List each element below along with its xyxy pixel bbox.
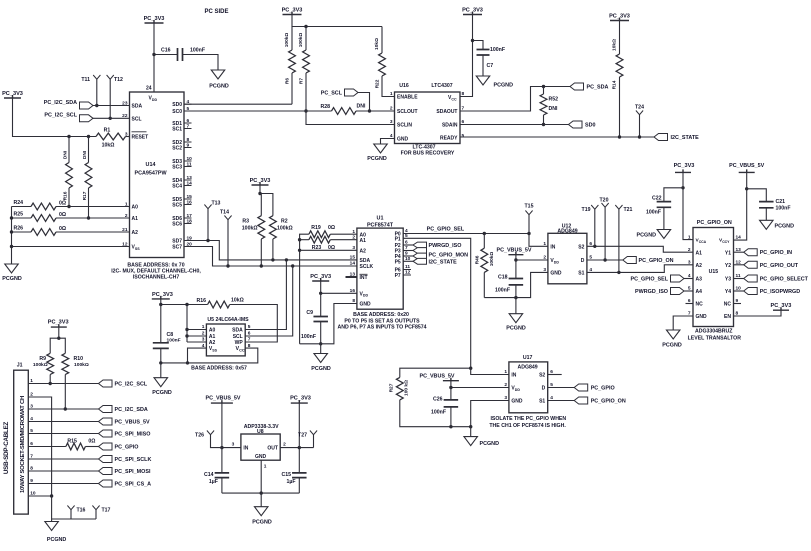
wire J1 pin1 — [28, 383, 98, 385]
svg-text:R52: R52 — [549, 97, 559, 103]
svg-text:2: 2 — [504, 382, 507, 388]
tag I2C_STATE — [654, 134, 699, 142]
svg-text:R28: R28 — [320, 104, 330, 110]
svg-text:J1: J1 — [17, 363, 23, 369]
svg-text:PC_3V3: PC_3V3 — [674, 163, 695, 169]
capacitor C21 100nF — [759, 199, 790, 212]
node R16-A0 junction — [67, 205, 70, 208]
wire P4 stub — [403, 255, 413, 257]
svg-text:GND: GND — [360, 302, 372, 308]
svg-text:A1: A1 — [132, 216, 139, 222]
wire PC_I2C_SDA to U14 SDA pin23 — [93, 105, 130, 107]
svg-text:DNI: DNI — [357, 104, 366, 110]
svg-text:PC_3V3: PC_3V3 — [250, 178, 271, 184]
svg-text:NC: NC — [724, 302, 732, 308]
svg-text:100kΩ: 100kΩ — [277, 225, 293, 231]
node U5 A0 junction — [185, 328, 188, 331]
wire R6 bottom to SD0 — [291, 73, 293, 104]
svg-text:T16: T16 — [77, 508, 86, 514]
wire R7 bottom to SC0 — [305, 73, 307, 111]
node VCC-C7 junction — [471, 39, 474, 42]
svg-text:PCGND: PCGND — [2, 276, 22, 282]
svg-text:R46: R46 — [475, 255, 481, 264]
wire T16T17 branch — [52, 518, 96, 520]
text U5 note — [191, 366, 247, 372]
power PC_3V3 VCC-U16 — [462, 8, 483, 15]
node T19-S2 junction — [593, 245, 596, 248]
svg-text:0Ω: 0Ω — [59, 212, 66, 218]
testpoint T27 — [298, 431, 317, 439]
node C8-gnd junction — [159, 361, 162, 364]
wire C26 top lead — [450, 388, 452, 400]
wire SD7 to SDA bus — [184, 241, 357, 260]
node T13-SD7 — [206, 239, 209, 242]
svg-text:PC_3V3: PC_3V3 — [310, 274, 331, 280]
wire A0 net — [12, 206, 32, 208]
testpoint T12 — [107, 75, 123, 83]
op-amp U8 ADP3338 regulator — [241, 424, 280, 460]
node R2R3 junction — [258, 192, 261, 195]
svg-text:100 kΩ: 100 kΩ — [403, 380, 409, 396]
wire T26 stem — [211, 435, 222, 448]
svg-text:3: 3 — [504, 395, 507, 401]
svg-text:SC3: SC3 — [172, 165, 182, 171]
wire VCCA net — [683, 172, 693, 239]
svg-text:IN: IN — [550, 244, 555, 250]
resistor R25 0ohm — [13, 212, 66, 222]
resistor R46 100k — [475, 248, 496, 272]
resistor R27 100k — [389, 377, 410, 400]
wire SC0 bus to SCLOUT — [184, 110, 332, 112]
svg-text:2: 2 — [688, 247, 691, 253]
wire U17 S2 stub — [548, 374, 562, 376]
svg-text:1µF: 1µF — [209, 479, 218, 485]
wire R10 bottom lead — [64, 375, 66, 410]
svg-text:100nF: 100nF — [490, 47, 505, 53]
tag PC_SDA — [570, 83, 608, 91]
testpoint T11 — [81, 75, 100, 83]
svg-text:1µF: 1µF — [286, 479, 295, 485]
wire R24 to U14 A0 — [56, 206, 130, 208]
svg-text:PC_GPIO: PC_GPIO — [591, 386, 615, 392]
svg-text:PC_GPIO_ON: PC_GPIO_ON — [697, 220, 732, 226]
wire U17 VDD — [451, 381, 509, 388]
resistor R52 DNI — [540, 94, 558, 115]
node rail-A1 — [10, 216, 13, 219]
wire U8 gnd rail — [222, 492, 299, 494]
pin 24 label — [146, 86, 152, 92]
svg-text:U16: U16 — [399, 83, 409, 89]
wire T20 stem — [604, 207, 606, 260]
tag PC_GPIO_ON U17-S1 — [574, 397, 626, 405]
wire C14 top lead — [221, 448, 223, 473]
svg-text:2: 2 — [390, 106, 393, 112]
svg-text:0Ω: 0Ω — [59, 226, 66, 232]
svg-text:PC_3V3: PC_3V3 — [462, 8, 483, 14]
svg-text:10kΩ: 10kΩ — [374, 38, 380, 50]
svg-text:PC_GPIO_IN: PC_GPIO_IN — [760, 250, 792, 256]
svg-text:C18: C18 — [498, 275, 508, 281]
wire gnd stem C18 — [515, 298, 517, 314]
svg-text:A0: A0 — [132, 205, 139, 211]
text USB-SDP-CABLEZ — [3, 421, 10, 474]
resistor R17 DNI — [82, 150, 92, 200]
svg-text:100kΩ: 100kΩ — [242, 225, 258, 231]
wire R23 left — [300, 239, 309, 241]
svg-text:VCC: VCC — [236, 346, 245, 352]
testpoint T24 — [635, 105, 644, 115]
wire J1 pin9 — [28, 483, 98, 485]
capacitor C8 100nF — [153, 332, 181, 348]
wire C16 left lead — [154, 54, 178, 56]
svg-text:A2: A2 — [209, 340, 216, 346]
node T11-SDA junction — [95, 104, 98, 107]
node U8 gnd junction — [260, 491, 263, 494]
wire A4 stub — [684, 290, 693, 292]
svg-text:U5 24LC64A-IMS: U5 24LC64A-IMS — [207, 317, 249, 323]
svg-text:3: 3 — [232, 442, 235, 448]
wire 3V3 to R16net — [161, 299, 208, 305]
wire U17 D lead — [548, 387, 575, 389]
op-amp U5 24LC64 eeprom — [202, 317, 251, 356]
svg-text:24: 24 — [146, 86, 152, 92]
svg-text:PC_3V3: PC_3V3 — [48, 320, 69, 326]
svg-text:U1: U1 — [377, 216, 384, 222]
svg-text:EN: EN — [724, 314, 731, 320]
power PC_3V3 U14-VDD — [144, 16, 165, 23]
svg-text:SD0: SD0 — [172, 102, 182, 108]
svg-text:PCGND: PCGND — [47, 537, 67, 543]
wire VSS net — [12, 246, 130, 248]
svg-text:R26: R26 — [13, 226, 23, 232]
svg-text:7: 7 — [248, 337, 251, 343]
tag PC_GPIO U17-D — [574, 384, 614, 392]
wire C7 top lead — [473, 41, 484, 50]
power PC_3V3 U5 — [152, 292, 173, 299]
svg-text:A4: A4 — [696, 289, 703, 295]
wire R27 top lead — [400, 368, 471, 377]
node VCCY-C21 junction — [745, 187, 748, 190]
svg-text:PC_SCL: PC_SCL — [321, 90, 343, 96]
pin 2 label U8 — [283, 442, 286, 448]
svg-text:T21: T21 — [624, 207, 633, 213]
svg-text:5: 5 — [462, 133, 465, 139]
svg-text:1: 1 — [504, 369, 507, 375]
svg-text:3: 3 — [688, 260, 691, 266]
svg-text:SC1: SC1 — [172, 127, 182, 133]
power PC_VBUS_5V U12 — [496, 248, 531, 255]
svg-text:WP: WP — [235, 340, 244, 346]
svg-text:ADG849: ADG849 — [557, 229, 577, 235]
ground PCGND at C22 — [637, 230, 671, 239]
wire P3 stub — [403, 250, 413, 252]
wire U16 GND to PCGND — [381, 139, 395, 145]
node R52-SDAIN junction — [542, 123, 545, 126]
svg-text:U17: U17 — [523, 355, 533, 361]
capacitor C9 100nF — [301, 310, 328, 340]
wire J1 pin10 — [28, 495, 51, 497]
node rail-R7 junction — [304, 25, 307, 28]
resistor R26 0ohm — [13, 226, 66, 236]
svg-text:P7: P7 — [395, 273, 401, 279]
power PC_3V3 R2R3 — [250, 178, 271, 185]
svg-text:GND: GND — [550, 271, 562, 277]
svg-text:10WAY SOCKET-SMD/MICROMAT CH: 10WAY SOCKET-SMD/MICROMAT CH — [20, 396, 26, 493]
svg-text:23: 23 — [122, 100, 128, 106]
wire J1 pin7 — [28, 458, 98, 460]
node RESET-R16 junction — [67, 135, 70, 138]
svg-text:3: 3 — [352, 245, 355, 251]
svg-text:IN: IN — [243, 446, 248, 452]
wire U12 D to tag — [587, 259, 623, 261]
node VDD-C16 junction — [152, 53, 155, 56]
svg-text:T26: T26 — [195, 433, 204, 439]
svg-text:PC_SPI_MOSI: PC_SPI_MOSI — [115, 469, 151, 475]
svg-text:PC_GPIO_ON: PC_GPIO_ON — [639, 258, 674, 264]
svg-text:A2: A2 — [360, 248, 367, 254]
tag PC_GPIO_MON P4 — [413, 253, 468, 259]
text U14 base address note — [111, 263, 201, 281]
wire P5 stub — [403, 260, 413, 262]
resistor R1 10k — [96, 128, 126, 149]
connector J1 10-way — [14, 363, 36, 514]
svg-text:PC_VBUS_5V: PC_VBUS_5V — [496, 248, 531, 254]
capacitor C18 100nF — [495, 275, 523, 294]
wire R19 left — [300, 234, 309, 240]
power PC_VBUS_5V U17 — [419, 374, 458, 381]
svg-text:R7: R7 — [299, 78, 305, 84]
wire U1 GND to rail — [300, 304, 357, 344]
wire R9 bottom lead — [49, 375, 51, 384]
power PC_3V3 J1 — [48, 320, 69, 328]
node C18 gnd junction — [514, 296, 517, 299]
svg-text:R25: R25 — [13, 212, 23, 218]
svg-text:R14: R14 — [612, 80, 618, 89]
power PC_3V3 U8-OUT — [290, 396, 311, 403]
resistor R19 0ohm — [309, 225, 335, 238]
node R2-SDA junction — [271, 258, 274, 261]
svg-text:ADG3304BRUZ: ADG3304BRUZ — [695, 329, 733, 335]
node R46 junction — [483, 232, 486, 235]
svg-text:R3: R3 — [242, 219, 249, 225]
wire NC left stub — [686, 303, 694, 305]
node SDA bus junction — [285, 258, 288, 261]
svg-text:PC_VBUS_5V: PC_VBUS_5V — [419, 374, 454, 380]
svg-text:R22: R22 — [375, 79, 381, 88]
wire U15 GND — [673, 316, 693, 330]
svg-text:A0: A0 — [209, 328, 216, 334]
wire left ground rail — [11, 207, 13, 265]
wire J1 pin8 — [28, 470, 98, 472]
wire R9 top lead — [50, 338, 59, 353]
svg-text:P0 TO P5 IS SET AS OUTPUTS: P0 TO P5 IS SET AS OUTPUTS — [344, 318, 420, 324]
node T14-SCLK — [226, 264, 229, 267]
tag PC_VBUS_5V — [99, 418, 150, 426]
svg-text:100nF: 100nF — [495, 288, 510, 294]
node R3-SCLK junction — [260, 264, 263, 267]
wire SDAOUT to PC_SDA — [460, 87, 570, 112]
svg-text:C22: C22 — [652, 196, 662, 202]
node P1-R27 junction — [469, 367, 472, 370]
node rail-A2 — [10, 230, 13, 233]
svg-text:PCGND: PCGND — [252, 520, 272, 526]
svg-text:100kΩ: 100kΩ — [33, 362, 48, 368]
svg-text:PCF8574T: PCF8574T — [367, 222, 394, 228]
node R17-A1 junction — [87, 216, 90, 219]
svg-text:T17: T17 — [102, 508, 111, 514]
svg-text:S2: S2 — [578, 244, 584, 250]
wire A1 net left — [12, 217, 32, 219]
ground PCGND at U1 — [311, 354, 331, 372]
power PC_3V3 R14 — [609, 14, 630, 21]
svg-text:DNI: DNI — [82, 150, 88, 159]
wire R17 bottom lead — [88, 188, 90, 218]
svg-text:SC2: SC2 — [172, 146, 182, 152]
svg-text:A2: A2 — [696, 263, 703, 269]
tag PC_SPI_SCLK — [99, 456, 152, 464]
resistor R22 10k — [374, 38, 385, 88]
svg-text:R17: R17 — [82, 191, 88, 200]
svg-text:SDAIN: SDAIN — [442, 123, 458, 129]
wire SD0 bus — [184, 103, 292, 105]
svg-text:PC_GPIO: PC_GPIO — [115, 445, 139, 451]
wire J1 pin2 gnd — [28, 397, 51, 496]
svg-text:1: 1 — [390, 91, 393, 97]
wire RESET net — [13, 98, 97, 137]
svg-text:Y4: Y4 — [725, 289, 731, 295]
svg-text:T14: T14 — [220, 210, 229, 216]
node C8 top junction — [159, 303, 162, 306]
svg-text:PCGND: PCGND — [152, 390, 172, 396]
svg-text:IN: IN — [511, 373, 516, 379]
wire P2 stub — [403, 244, 413, 246]
resistor R6 100k — [284, 33, 295, 84]
svg-text:10kΩ: 10kΩ — [102, 143, 115, 149]
ground PCGND at U16 — [367, 144, 387, 162]
svg-text:SC5: SC5 — [172, 203, 182, 209]
text PC SIDE — [204, 9, 228, 15]
ground PCGND at U17 — [464, 437, 499, 447]
wire C21 to PCGND — [765, 208, 767, 221]
svg-text:A1: A1 — [360, 238, 367, 244]
node A-strap junction2 — [298, 249, 301, 252]
wire R14 top lead — [619, 21, 621, 55]
svg-text:PC_GPIO_SEL: PC_GPIO_SEL — [427, 226, 465, 232]
node VDD-C18 junction — [514, 258, 517, 261]
capacitor C7 100nF — [477, 47, 506, 69]
svg-text:PC_GPIO_SELECT: PC_GPIO_SELECT — [760, 277, 809, 283]
wire R25 to U14 A1 — [56, 217, 130, 219]
power PC_VBUS_5V U8 — [205, 396, 240, 403]
wire R3 top lead — [260, 194, 261, 216]
resistor R16 DNI — [63, 150, 73, 200]
wire NC right stub — [734, 303, 742, 305]
node VDD-C9 junction — [319, 292, 322, 295]
wire T13 stem — [207, 209, 209, 241]
node R9-pin1 junction — [49, 382, 52, 385]
svg-text:100kΩ: 100kΩ — [298, 33, 304, 48]
svg-text:PC_GPIO_SEL: PC_GPIO_SEL — [631, 277, 669, 283]
wire U1 VDD — [321, 281, 357, 293]
capacitor C15 1uF — [281, 472, 306, 485]
svg-text:C9: C9 — [306, 310, 313, 316]
svg-text:2: 2 — [352, 234, 355, 240]
wire R16 to U5 WP — [230, 305, 278, 343]
wire U8 GND stem — [260, 460, 262, 493]
svg-text:PC_I2C_SCL: PC_I2C_SCL — [44, 113, 77, 119]
svg-text:PC_GPIO_OUT: PC_GPIO_OUT — [760, 263, 799, 269]
wire U5 SDA up — [245, 260, 286, 330]
wire J1 pin5 — [28, 433, 98, 435]
wire C9 bottom lead — [320, 322, 322, 344]
svg-text:PC_3V3: PC_3V3 — [144, 16, 165, 22]
tag PC_I2C_SDA — [44, 100, 93, 109]
power PC_VBUS_5V U15-VCCY — [729, 163, 764, 172]
svg-text:R1: R1 — [104, 128, 111, 134]
svg-text:SDA: SDA — [132, 104, 143, 110]
wire PC_I2C_SCL to U14 SCL pin22 — [93, 117, 130, 119]
svg-text:1: 1 — [264, 464, 267, 470]
svg-text:PC_SDA: PC_SDA — [587, 85, 609, 91]
resistor R2 100k — [270, 216, 293, 239]
svg-text:PCGND: PCGND — [662, 342, 682, 348]
tag I2C_STATE P5 — [413, 258, 457, 265]
wire U5 gnd rail — [161, 348, 258, 363]
ground PCGND at U15 — [662, 330, 682, 348]
svg-text:C26: C26 — [433, 397, 443, 403]
svg-text:SC0: SC0 — [172, 109, 182, 115]
svg-text:0Ω: 0Ω — [88, 439, 95, 445]
svg-text:T11: T11 — [81, 77, 90, 83]
svg-text:SC6: SC6 — [172, 222, 182, 228]
tag PC_I2C_SDA — [99, 406, 148, 414]
svg-text:0Ω: 0Ω — [59, 201, 66, 207]
svg-text:PC_3V3: PC_3V3 — [770, 303, 791, 309]
wire R23 to U1 A1 — [330, 239, 357, 241]
resistor R14 10k — [612, 39, 623, 89]
node U8 IN junction — [220, 446, 223, 449]
svg-text:R27: R27 — [389, 383, 395, 392]
node VCCA-C22 junction — [681, 186, 684, 189]
wire R16 top lead — [68, 137, 70, 163]
svg-text:0Ω: 0Ω — [328, 225, 335, 231]
svg-text:4: 4 — [202, 343, 205, 349]
svg-text:T13: T13 — [212, 200, 221, 206]
capacitor C14 1uF — [204, 472, 229, 485]
svg-text:GND: GND — [511, 399, 523, 405]
tag PC_ISOPWRGD Y4 — [744, 288, 801, 296]
svg-text:PCGND: PCGND — [775, 224, 795, 230]
svg-text:U15: U15 — [709, 269, 719, 275]
svg-text:14: 14 — [350, 261, 356, 267]
node A-strap junction1 — [298, 238, 301, 241]
wire U1 A2 — [300, 249, 357, 251]
wire T15 stem — [528, 215, 530, 234]
wire C18 top lead — [515, 260, 517, 279]
svg-text:PC_VBUS_5V: PC_VBUS_5V — [205, 396, 240, 402]
resistor R24 0ohm — [13, 200, 66, 210]
wire SC7 to SCLK bus — [184, 247, 357, 267]
svg-text:100nF: 100nF — [646, 210, 661, 216]
svg-text:R2: R2 — [281, 219, 288, 225]
wire R2R3 supply — [259, 185, 261, 194]
wire U5 SCL up — [245, 266, 293, 336]
svg-text:C7: C7 — [487, 63, 494, 69]
wire U1 INT stub — [346, 276, 357, 278]
wire U8 OUT — [280, 447, 313, 449]
svg-text:D: D — [581, 258, 585, 264]
wire R22 to U16 ENABLE pin1 — [382, 76, 395, 97]
